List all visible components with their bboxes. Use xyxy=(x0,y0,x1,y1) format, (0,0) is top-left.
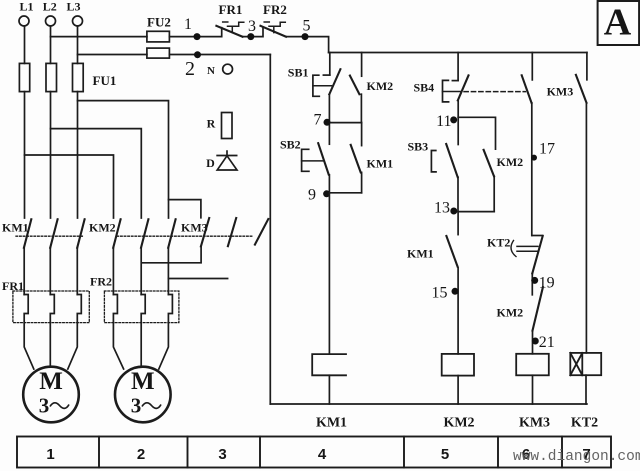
pushbutton SB2 blade (NO) xyxy=(318,143,329,174)
FR1 heater element1 xyxy=(24,295,28,323)
wire KM2 pole3 to FR2 heater xyxy=(167,248,169,295)
FR1 dotted box xyxy=(13,291,89,323)
contact FR1 (NC) blade xyxy=(216,26,242,37)
svg-text:KT2: KT2 xyxy=(487,236,510,250)
wire KM1 NC to KM2 coil xyxy=(457,268,459,354)
table border xyxy=(17,437,611,468)
pushbutton SB3 blade (NO) xyxy=(446,144,458,177)
svg-text:KM2: KM2 xyxy=(89,221,116,235)
KM1 linkage dotted xyxy=(16,235,84,237)
wire bottom rail xyxy=(270,403,587,405)
svg-text:FU2: FU2 xyxy=(147,15,171,30)
svg-text:D: D xyxy=(206,156,215,170)
svg-text:7: 7 xyxy=(314,112,322,129)
wire FR2 to motor2 left xyxy=(113,323,123,369)
terminal N circle xyxy=(223,64,233,74)
wire KT2 contact to KM2 NC xyxy=(531,273,533,294)
svg-text:21: 21 xyxy=(539,334,555,351)
resistor R xyxy=(222,113,233,139)
wire node1 to FR1 contact xyxy=(169,28,221,37)
wire node11 bridge xyxy=(458,117,495,149)
svg-text:3: 3 xyxy=(218,446,226,463)
terminal L3 xyxy=(73,16,83,26)
svg-text:L2: L2 xyxy=(43,0,57,14)
wire N line to left rail xyxy=(169,54,270,56)
wire line1 (L2 branch to FU2) xyxy=(51,36,147,38)
contactor KM2 main pole3 blade xyxy=(168,219,175,248)
svg-text:KM3: KM3 xyxy=(519,416,550,431)
pushbutton SB4 pole2 blade (NO) xyxy=(522,75,532,103)
coil KM3 xyxy=(516,354,549,376)
wire tap line C (L1 to KM2 pole1) xyxy=(25,155,114,218)
node 7 xyxy=(324,119,331,126)
svg-text:KM1: KM1 xyxy=(316,416,347,431)
svg-text:9: 9 xyxy=(308,187,316,204)
wire FR2 to motor2 mid xyxy=(140,323,142,367)
contactor KM2 main pole1 blade xyxy=(113,219,120,248)
fuse FU1 pole1 xyxy=(19,63,29,91)
timer contact KT2 delay plates xyxy=(517,246,538,251)
svg-text:3: 3 xyxy=(39,394,50,418)
FR1 heater element2 xyxy=(50,295,54,323)
node dot 1 xyxy=(194,33,201,40)
wire KM2 coil to bottom rail xyxy=(457,376,459,404)
motor M1 circle xyxy=(23,367,79,423)
wire KM3 coil to bottom rail xyxy=(532,375,534,404)
svg-text:KM1: KM1 xyxy=(367,157,394,171)
wire rail to SB4 xyxy=(457,53,459,81)
contactor KM3 main pole3 blade xyxy=(255,219,268,245)
pushbutton SB2 bracket xyxy=(302,149,309,171)
coil KM1 xyxy=(312,354,346,375)
wire left rail xyxy=(269,55,271,405)
wire rail to SB1 xyxy=(329,53,331,75)
svg-text:KT2: KT2 xyxy=(571,416,598,431)
svg-text:A: A xyxy=(604,2,632,44)
coil KT2 divider xyxy=(581,353,583,375)
wire L1 to KM1 pole1 xyxy=(24,92,26,218)
contact KM2 aux blade (NO) xyxy=(350,76,360,95)
node dot 5 xyxy=(302,33,309,40)
wire tap line B (L2 to KM2 pole2) xyxy=(51,129,142,218)
wire FR1 to motor1 right xyxy=(68,323,78,369)
wire rail to KM3 aux xyxy=(586,53,588,80)
wire node9 bridge xyxy=(329,192,361,194)
svg-text:KM2: KM2 xyxy=(497,306,524,320)
FR2 heater element1 xyxy=(113,295,117,323)
svg-text:3: 3 xyxy=(131,394,142,418)
svg-text:5: 5 xyxy=(441,446,449,463)
svg-text:1: 1 xyxy=(184,16,192,33)
wire KM3 pole1 out to KM2 pole2 xyxy=(141,246,201,262)
terminal L2 xyxy=(46,16,56,26)
node 17 xyxy=(531,155,537,161)
fuse FU1 pole2 xyxy=(46,63,57,91)
wire KM2 pole1 to FR2 heater xyxy=(112,248,114,295)
svg-text:FR2: FR2 xyxy=(263,2,287,17)
svg-text:13: 13 xyxy=(434,200,450,217)
contactor KM2 main pole2 blade xyxy=(141,219,148,248)
svg-text:15: 15 xyxy=(432,285,448,302)
wire node3 to FR2 contact xyxy=(243,28,264,37)
wire FR2 to motor2 right xyxy=(159,323,169,369)
coil KM2 xyxy=(442,354,474,376)
svg-text:FR1: FR1 xyxy=(219,2,243,17)
svg-text:5: 5 xyxy=(303,18,311,35)
wire node7 bridge xyxy=(330,122,362,124)
wire SB4 to SB3 xyxy=(457,100,459,144)
svg-text:4: 4 xyxy=(318,446,327,463)
svg-text:KM3: KM3 xyxy=(547,84,574,98)
svg-text:SB3: SB3 xyxy=(408,140,429,154)
svg-text:17: 17 xyxy=(539,141,555,158)
SB4 linkage dashed xyxy=(464,91,525,93)
wire node13 bridge xyxy=(458,211,494,213)
svg-text:SB2: SB2 xyxy=(280,138,301,152)
svg-text:KM2: KM2 xyxy=(497,155,524,169)
wire KM3 aux to KT2 coil xyxy=(585,103,587,353)
pushbutton SB1 rod xyxy=(313,85,332,87)
contactor KM1 main pole3 blade xyxy=(77,219,84,248)
svg-text:1: 1 xyxy=(46,446,54,463)
wire KM1 pole2 to FR1 heater xyxy=(49,248,51,295)
contactor KM3 main pole2 blade xyxy=(228,218,236,246)
coil KT2 xyxy=(570,353,601,375)
wire control top rail xyxy=(329,52,587,54)
svg-text:FR1: FR1 xyxy=(2,279,24,293)
wire tap line A (L3 to KM2 pole3) xyxy=(78,101,169,218)
svg-text:www.diangon.com: www.diangon.com xyxy=(513,449,640,465)
svg-text:3: 3 xyxy=(248,18,256,35)
svg-text:KM1: KM1 xyxy=(2,221,29,235)
frame A box xyxy=(598,1,640,45)
wire KM2 aux branch bottom xyxy=(360,94,362,122)
node 13 xyxy=(450,208,457,215)
SB4 contact tick xyxy=(452,80,458,82)
contactor KM1 main pole1 blade xyxy=(24,219,31,248)
svg-text:SB1: SB1 xyxy=(288,66,309,80)
FR2 heater element2 xyxy=(141,295,145,323)
wire L3 to KM1 pole3 xyxy=(77,92,79,218)
svg-text:KM1: KM1 xyxy=(407,247,434,261)
timer contact KT2 hook xyxy=(511,241,516,257)
wire L1 drop xyxy=(24,26,26,63)
svg-text:FR2: FR2 xyxy=(90,275,112,289)
wire KM3 pole2 out to KM2 pole3 xyxy=(168,278,227,280)
wire KM2 NC to KM3 coil xyxy=(532,331,534,354)
wire KM2 aux2 branch bottom xyxy=(493,176,495,211)
svg-text:KM2: KM2 xyxy=(443,416,474,431)
fuse FU1 pole3 xyxy=(73,63,84,91)
svg-text:11: 11 xyxy=(436,113,451,130)
KT2 contact tick xyxy=(532,235,542,237)
svg-text:N: N xyxy=(207,65,215,77)
motor M2 circle xyxy=(115,367,171,423)
node 21 xyxy=(532,338,539,345)
table dividers xyxy=(99,437,562,468)
pushbutton SB4 rod xyxy=(443,91,461,93)
contactor KM3 main pole1 blade xyxy=(201,218,209,246)
pushbutton SB4 blade (NC) xyxy=(458,75,469,100)
wire KM1 pole1 to FR1 heater xyxy=(23,248,25,295)
node 19 xyxy=(531,277,538,284)
KM2 KM3 linkage dotted xyxy=(117,235,253,237)
wire node9 to KM1 coil xyxy=(328,193,330,354)
terminal L1 xyxy=(19,16,29,26)
wire L2 drop xyxy=(50,26,52,63)
pushbutton SB2 rod xyxy=(302,160,324,162)
wire KM1 pole3 to FR1 heater xyxy=(76,248,78,295)
wire KM1 aux branch bottom xyxy=(361,172,363,192)
wire FR1 to motor1 left xyxy=(24,323,34,369)
wire line2 (L3 branch to FU2 lower) xyxy=(78,54,147,56)
contact FR2 (NC) blade xyxy=(261,26,287,37)
timer contact KT2 blade xyxy=(532,236,542,273)
wire KM3 pole1 feed xyxy=(169,200,201,218)
FR1 heater element3 xyxy=(77,295,81,323)
svg-text:L3: L3 xyxy=(66,0,80,14)
node 11 xyxy=(450,116,457,123)
pushbutton SB4 bracket xyxy=(443,80,449,102)
fuse FU2 upper xyxy=(147,31,170,42)
SB1 contact tick xyxy=(323,74,329,76)
wire SB3 to node13 xyxy=(457,177,459,211)
contact KM1 NC blade xyxy=(446,236,457,267)
svg-text:L1: L1 xyxy=(19,0,33,14)
svg-text:M: M xyxy=(131,368,155,395)
FR2 dotted box xyxy=(104,291,178,323)
wire SB4 pole2 to KT2 contact xyxy=(531,103,533,236)
svg-text:SB4: SB4 xyxy=(414,81,435,95)
FR2 heater element3 xyxy=(168,295,172,323)
wire node5 to control corner xyxy=(286,37,329,53)
wire KM2 pole2 to FR2 heater xyxy=(140,248,142,295)
node 15 xyxy=(452,288,459,295)
node dot 2 xyxy=(194,51,201,58)
contact KM1 aux blade (NO) xyxy=(351,145,361,173)
node 9 xyxy=(323,190,330,197)
svg-text:2: 2 xyxy=(137,446,145,463)
contact KM2 aux2 blade (NO) xyxy=(484,150,494,177)
svg-text:KM3: KM3 xyxy=(181,221,208,235)
contact FR2 actuator xyxy=(264,22,285,33)
wire SB2 to node9 xyxy=(328,175,330,193)
svg-text:FU1: FU1 xyxy=(93,73,117,88)
pushbutton SB3 bracket xyxy=(431,151,436,172)
node dot 3 xyxy=(247,33,254,40)
pushbutton SB1 blade (NC) xyxy=(329,69,340,94)
diode D xyxy=(216,150,237,170)
contact FR1 actuator xyxy=(223,22,244,32)
svg-text:R: R xyxy=(207,117,216,131)
wire SB1 to SB2 xyxy=(328,94,330,144)
wire KT2 coil to bottom rail xyxy=(585,375,587,404)
coil KT2 X mark xyxy=(570,353,582,375)
wire FR1 to motor1 mid xyxy=(49,323,51,367)
wire KM1 aux branch top xyxy=(361,123,363,146)
wire L2 to KM1 pole2 xyxy=(50,92,52,218)
svg-text:M: M xyxy=(39,368,63,395)
svg-text:2: 2 xyxy=(185,58,195,80)
contact KM2 NC blade xyxy=(533,287,543,330)
svg-text:KM2: KM2 xyxy=(367,79,394,93)
pushbutton SB1 bracket xyxy=(313,75,319,96)
contact KM3 aux blade (NO) xyxy=(576,75,587,103)
wire L3 drop xyxy=(77,26,79,63)
wire node13 to KM1 NC xyxy=(457,212,459,235)
wire KM2 aux branch top xyxy=(361,53,363,77)
svg-text:19: 19 xyxy=(539,274,555,291)
wire rail to SB4 pole2 xyxy=(531,53,533,80)
fuse FU2 lower xyxy=(147,48,170,58)
contactor KM1 main pole2 blade xyxy=(50,219,57,248)
wire KM1 coil to bottom rail xyxy=(328,375,330,404)
